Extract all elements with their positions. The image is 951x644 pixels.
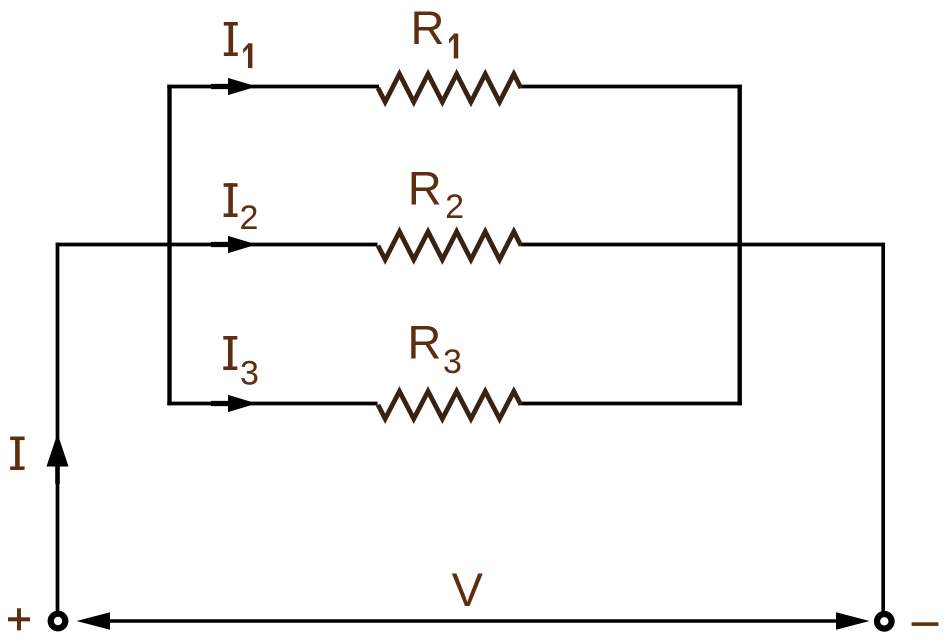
arrow: current I2 on branch 2 <box>211 236 257 253</box>
label: R1 <box>411 1 459 58</box>
wire: inner left vertical (joins branch 1 and branch 3) <box>167 85 171 406</box>
svg-text:V: V <box>452 563 484 616</box>
label: - polarity sign <box>912 622 939 626</box>
wire: branch 3 left segment <box>167 402 377 406</box>
wire: outer left vertical down to + terminal <box>56 243 60 612</box>
svg-text:2: 2 <box>445 188 464 226</box>
resistor R3 <box>378 391 521 419</box>
label: I3 <box>223 336 259 392</box>
label: total current I <box>10 437 24 471</box>
label: voltage V <box>452 563 484 616</box>
wire: outer right vertical down to - terminal <box>881 243 885 612</box>
svg-text:R: R <box>407 316 441 369</box>
wire: inner right vertical (joins branch 1 and branch 3) <box>738 85 742 406</box>
label: + polarity sign <box>8 608 30 630</box>
svg-text:3: 3 <box>240 354 259 392</box>
arrow: voltage arrowhead pointing right at - terminal <box>836 612 870 630</box>
svg-text:R: R <box>411 1 445 54</box>
arrow: current I3 on branch 3 <box>211 395 257 412</box>
wire: branch 1 left segment <box>167 85 379 89</box>
resistor R1 <box>378 74 521 102</box>
label: I2 <box>224 183 259 237</box>
node: + terminal (open circle) <box>51 614 66 629</box>
svg-text:2: 2 <box>240 199 259 237</box>
label: R3 <box>407 316 461 382</box>
arrow: current I1 on branch 1 <box>211 78 257 95</box>
wire: branch 2 right segment <box>521 243 885 247</box>
wire: bottom voltage line <box>106 619 838 622</box>
wire: branch 3 right segment <box>521 402 742 406</box>
node: - terminal (open circle) <box>877 614 892 629</box>
resistor R2 <box>378 232 521 260</box>
svg-text:3: 3 <box>443 343 462 381</box>
svg-text:R: R <box>408 161 442 214</box>
wire: branch 2 left segment <box>56 243 378 247</box>
wire: branch 1 right segment <box>521 85 742 89</box>
arrow: total current I (upward on left wire) <box>47 434 69 485</box>
label: R2 <box>408 161 464 226</box>
arrow: voltage arrowhead pointing left at + terminal <box>77 612 111 630</box>
label: I1 (slab-serif I + subscript 1) <box>224 22 253 68</box>
